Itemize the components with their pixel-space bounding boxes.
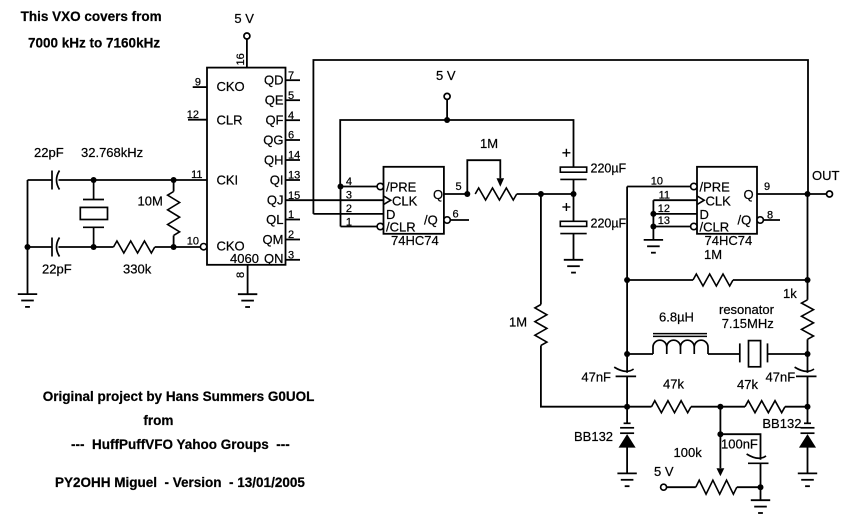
wire R4 to right rail <box>733 279 808 281</box>
svg-text:14: 14 <box>288 150 300 162</box>
wire U2 pin2 D <box>313 213 383 215</box>
wire U2 pin4 /PRE <box>341 186 378 188</box>
svg-text:12: 12 <box>187 109 199 121</box>
wire R3 top lead <box>540 194 542 305</box>
capacitor C3 220uF <box>560 167 586 179</box>
svg-text:QN: QN <box>264 251 284 266</box>
capacitor C6 47nF <box>795 367 817 376</box>
wire 5V to rail <box>446 100 448 120</box>
junction R3 top node <box>538 191 544 197</box>
svg-text:1M: 1M <box>704 247 722 262</box>
svg-text:QD: QD <box>264 73 284 88</box>
wire U1 pin 2 stub <box>286 239 301 241</box>
pot wiper arrow P1 <box>497 178 505 187</box>
junction R4 left node <box>624 277 630 283</box>
svg-text:47k: 47k <box>663 376 684 391</box>
wire 5V rail <box>340 120 573 187</box>
wire D1 to ground <box>626 447 628 474</box>
wire U1 pin 5 stub <box>286 99 301 101</box>
svg-text:74HC74: 74HC74 <box>705 233 753 248</box>
terminal OUT <box>827 191 833 197</box>
svg-text:--- HuffPuffVFO Yahoo Groups: --- HuffPuffVFO Yahoo Groups --- <box>71 437 290 452</box>
svg-text:4060: 4060 <box>230 251 259 266</box>
wire U3 pin9 Q to OUT <box>757 193 808 195</box>
wire /PRE to /CLR tie <box>340 187 342 227</box>
wire U3 pin13 /CLR <box>653 226 690 228</box>
svg-text:QG: QG <box>263 132 283 147</box>
svg-text:QH: QH <box>264 152 284 167</box>
svg-text:10: 10 <box>187 235 199 247</box>
wire U1 pin 12 stub <box>188 119 207 121</box>
junction U3 /CLR node <box>650 224 656 230</box>
svg-text:4: 4 <box>346 176 352 188</box>
svg-text:/Q: /Q <box>424 213 438 228</box>
wire U1 pin 14 stub <box>286 159 301 161</box>
junction 100nF tap node <box>717 431 723 437</box>
wire U3 pin10 /PRE <box>627 186 691 188</box>
junction inductor left node <box>624 351 630 357</box>
ground U3 inputs <box>644 240 663 253</box>
wire left rail to C2 <box>28 246 53 248</box>
wire 5V to P2 <box>667 486 696 488</box>
svg-text:QM: QM <box>263 232 284 247</box>
wire left rail upper <box>626 187 628 373</box>
plus sign of C4 220uF <box>562 203 570 211</box>
wire bus left segment <box>627 406 651 408</box>
wire rail to L1 <box>627 353 653 355</box>
wire U1 pin 4 stub <box>286 119 301 121</box>
wire R2 to U1 pin10 <box>155 246 201 248</box>
junction U3 D node <box>650 211 656 217</box>
wire R7 to right rail <box>785 406 808 408</box>
capacitor C1 22pF <box>52 171 60 190</box>
svg-text:This VXO covers from: This VXO covers from <box>21 9 162 24</box>
wire U3 pin12 D <box>653 213 697 215</box>
svg-text:QJ: QJ <box>267 193 284 208</box>
svg-text:16: 16 <box>235 53 247 65</box>
junction pot left node <box>464 191 470 197</box>
capacitor C4 220uF <box>560 221 586 233</box>
svg-text:QE: QE <box>265 93 284 108</box>
IC U2 74HC74 body <box>384 167 444 234</box>
resistor R2 330k <box>114 241 155 253</box>
crystal X1 32.768kHz <box>80 180 107 247</box>
wire R3 bottom to varicap bus <box>541 346 627 407</box>
wire right rail upper <box>807 194 809 300</box>
wire tap to 100nF <box>720 434 760 460</box>
wire wiper lead <box>719 434 721 468</box>
junction tuning voltage node <box>717 404 723 410</box>
ground crystal network <box>18 294 37 307</box>
inverter bubble U2 /Q <box>444 217 450 223</box>
wire bus to D1 <box>626 407 628 424</box>
svg-text:22pF: 22pF <box>34 145 64 160</box>
wire tuning node down <box>719 407 721 435</box>
svg-text:100nF: 100nF <box>721 437 758 452</box>
wire 10M top lead <box>173 180 175 192</box>
wire U2 pin1 /CLR <box>341 226 378 228</box>
wire U1 pin 1 stub <box>286 219 301 221</box>
ground C4 <box>564 260 583 273</box>
inverter bubble U1 pin10 <box>200 244 206 250</box>
svg-text:from: from <box>143 413 173 428</box>
wire U1 pin 6 stub <box>286 139 301 141</box>
wire CLK D CLR ground tie <box>652 200 654 240</box>
terminal 5V supply P2 <box>661 484 667 490</box>
junction resonator right node <box>805 351 811 357</box>
svg-text:47nF: 47nF <box>766 370 796 385</box>
svg-text:6: 6 <box>288 130 294 142</box>
wire C5 to bus <box>626 376 628 407</box>
svg-text:3: 3 <box>346 190 352 202</box>
junction varicap bus left node <box>624 404 630 410</box>
svg-text:22pF: 22pF <box>42 262 72 277</box>
svg-text:CLK: CLK <box>706 193 732 208</box>
svg-text:QL: QL <box>266 212 283 227</box>
junction U2 /PRE node <box>338 184 344 190</box>
wire left ground rail <box>27 180 29 294</box>
svg-text:Q: Q <box>433 187 443 202</box>
wire D2 to ground <box>807 447 809 474</box>
svg-text:BB132: BB132 <box>762 416 801 431</box>
svg-text:74HC74: 74HC74 <box>391 233 439 248</box>
inverter bubble U2 /PRE <box>377 183 383 189</box>
svg-text:10M: 10M <box>138 194 163 209</box>
wire U1 pin 3 stub <box>286 259 301 261</box>
potentiometer P2 100k <box>696 480 737 494</box>
plus sign of C3 220uF <box>562 149 570 157</box>
svg-text:8: 8 <box>235 272 247 278</box>
wire left rail to R4 <box>627 279 693 281</box>
capacitor C5 47nF <box>614 367 636 376</box>
wire L1 to resonator <box>708 353 740 355</box>
svg-text:3: 3 <box>288 250 294 262</box>
clock wedge U2 <box>384 196 391 205</box>
svg-text:2: 2 <box>288 229 294 241</box>
svg-text:32.768kHz: 32.768kHz <box>81 145 143 160</box>
svg-text:PY2OHH Miguel - Version - 13: PY2OHH Miguel - Version - 13/01/2005 <box>55 475 305 490</box>
wire left rail top to C1 <box>28 179 53 181</box>
svg-text:1: 1 <box>346 216 352 228</box>
svg-text:Q: Q <box>744 187 754 202</box>
capacitor C7 100nF <box>747 454 769 463</box>
svg-text:BB132: BB132 <box>574 429 613 444</box>
varactor diode D1 BB132 <box>620 423 634 447</box>
svg-text:CKO: CKO <box>217 79 245 94</box>
wire pot wiper loop <box>467 160 500 194</box>
resistor R1 10M <box>168 192 180 236</box>
IC U3 74HC74 body <box>697 167 757 234</box>
inverter bubble U3 /PRE <box>691 183 697 189</box>
wire 10M bottom lead <box>173 236 175 248</box>
svg-text:9: 9 <box>764 181 770 193</box>
svg-text:5: 5 <box>288 90 294 102</box>
wire R5 to resonator node <box>807 339 809 373</box>
inverter bubble U3 /CLR <box>691 223 697 229</box>
svg-text:330k: 330k <box>123 262 152 277</box>
inductor L1 6.8uH <box>653 340 708 354</box>
junction cap midpoint node <box>571 191 577 197</box>
svg-text:11: 11 <box>659 189 670 201</box>
svg-text:7000 kHz to 7160kHz: 7000 kHz to 7160kHz <box>28 35 160 50</box>
wire U2 pin5 Q out <box>444 193 467 195</box>
svg-text:1M: 1M <box>509 315 527 330</box>
svg-text:7: 7 <box>288 70 294 82</box>
svg-text:1: 1 <box>288 209 294 221</box>
junction R4 right node <box>805 277 811 283</box>
pot wiper arrow P2 <box>717 468 725 476</box>
inverter bubble U3 /Q <box>757 217 763 223</box>
resistor R3 1M <box>535 305 547 346</box>
wire U1 pin16 to 5V <box>246 39 248 67</box>
varactor diode D2 BB132 <box>801 423 815 447</box>
junction P2 ground node <box>758 484 764 490</box>
svg-text:7.15MHz: 7.15MHz <box>722 316 774 331</box>
junction crystal bottom node <box>91 244 97 250</box>
wire to OUT terminal <box>808 193 827 195</box>
terminal 5V supply U2 <box>444 93 450 99</box>
junction varicap bus right node <box>805 404 811 410</box>
svg-text:13: 13 <box>288 170 300 182</box>
svg-text:5: 5 <box>456 181 462 193</box>
wire C7 to ground <box>760 463 762 500</box>
ceramic resonator X2 7.15MHz <box>740 341 768 367</box>
wire C1 to U1 CKI <box>59 179 208 181</box>
inductor L1 core lines <box>653 334 707 337</box>
resistor R5 1k <box>802 300 814 339</box>
wire U1 pin 9 stub <box>193 86 207 88</box>
potentiometer P1 1M <box>475 188 517 200</box>
svg-text:CLK: CLK <box>392 193 418 208</box>
junction OUT node <box>805 191 811 197</box>
ground D1 <box>617 473 636 486</box>
svg-text:47nF: 47nF <box>581 370 611 385</box>
svg-text:2: 2 <box>346 203 352 215</box>
junction R1 bottom node <box>171 244 177 250</box>
svg-text:QI: QI <box>270 172 284 187</box>
terminal 5V supply U1 <box>244 33 250 39</box>
svg-text:1M: 1M <box>480 136 498 151</box>
ground U1 pin8 <box>238 294 257 307</box>
wire P2 to ground node <box>737 486 761 488</box>
svg-text:OUT: OUT <box>812 168 840 183</box>
resistor R4 1M <box>693 274 733 286</box>
svg-text:6: 6 <box>453 209 459 221</box>
resistor R6 47k <box>652 401 691 413</box>
svg-text:5 V: 5 V <box>436 68 456 83</box>
svg-text:220µF: 220µF <box>591 162 627 176</box>
svg-text:10: 10 <box>651 175 663 187</box>
wire C6 to bus <box>807 376 809 407</box>
wire pot to cap node <box>517 193 574 195</box>
inverter bubble U2 /CLR <box>377 223 383 229</box>
svg-text:13: 13 <box>658 215 670 227</box>
ground P2 <box>751 500 770 513</box>
svg-text:5 V: 5 V <box>654 464 674 479</box>
clock wedge U3 <box>697 196 704 205</box>
svg-text:1k: 1k <box>783 286 797 301</box>
svg-text:220µF: 220µF <box>591 217 627 231</box>
wire C4 to ground <box>573 234 575 260</box>
wire bus to D2 <box>807 407 809 424</box>
IC U1 4060 body <box>207 68 286 265</box>
wire U3 pin11 CLK <box>653 199 697 201</box>
wire U1 pin 13 stub <box>286 179 301 181</box>
junction crystal top node <box>91 177 97 183</box>
svg-text:QF: QF <box>265 113 283 128</box>
svg-text:CKI: CKI <box>217 173 239 188</box>
svg-text:5 V: 5 V <box>234 11 254 26</box>
svg-text:/PRE: /PRE <box>700 179 731 194</box>
wire U2 pin6 /Q stub <box>450 219 469 221</box>
wire resonator to right rail <box>768 353 808 355</box>
junction left rail bottom node <box>25 244 31 250</box>
svg-text:4: 4 <box>288 110 294 122</box>
junction 10M top node <box>171 177 177 183</box>
svg-text:/PRE: /PRE <box>386 179 417 194</box>
svg-text:9: 9 <box>195 76 201 88</box>
wire C3 to C4 <box>573 179 575 221</box>
svg-text:6.8µH: 6.8µH <box>659 310 694 325</box>
junction 5V rail node <box>444 117 450 123</box>
svg-text:12: 12 <box>658 203 670 215</box>
wire C2 to R2 <box>59 246 114 248</box>
wire U1 pin8 to ground <box>247 265 249 294</box>
svg-text:/Q: /Q <box>738 213 752 228</box>
ground D2 <box>798 473 817 486</box>
wire U3 pin8 /Q stub <box>763 219 780 221</box>
wire U1 pin 7 stub <box>286 79 301 81</box>
svg-text:100k: 100k <box>674 445 703 460</box>
svg-text:8: 8 <box>767 210 773 222</box>
svg-text:Original project by Hans Summe: Original project by Hans Summers G0UOL <box>43 389 315 404</box>
svg-text:47k: 47k <box>737 377 758 392</box>
resistor R7 47k <box>745 401 785 413</box>
wire feedback from /Q2 top rail <box>313 60 808 214</box>
wire U1 QJ to U2 CLK <box>286 199 384 201</box>
wire R6 to R7 <box>691 406 745 408</box>
svg-text:CLR: CLR <box>217 112 243 127</box>
capacitor C2 22pF <box>52 238 60 257</box>
